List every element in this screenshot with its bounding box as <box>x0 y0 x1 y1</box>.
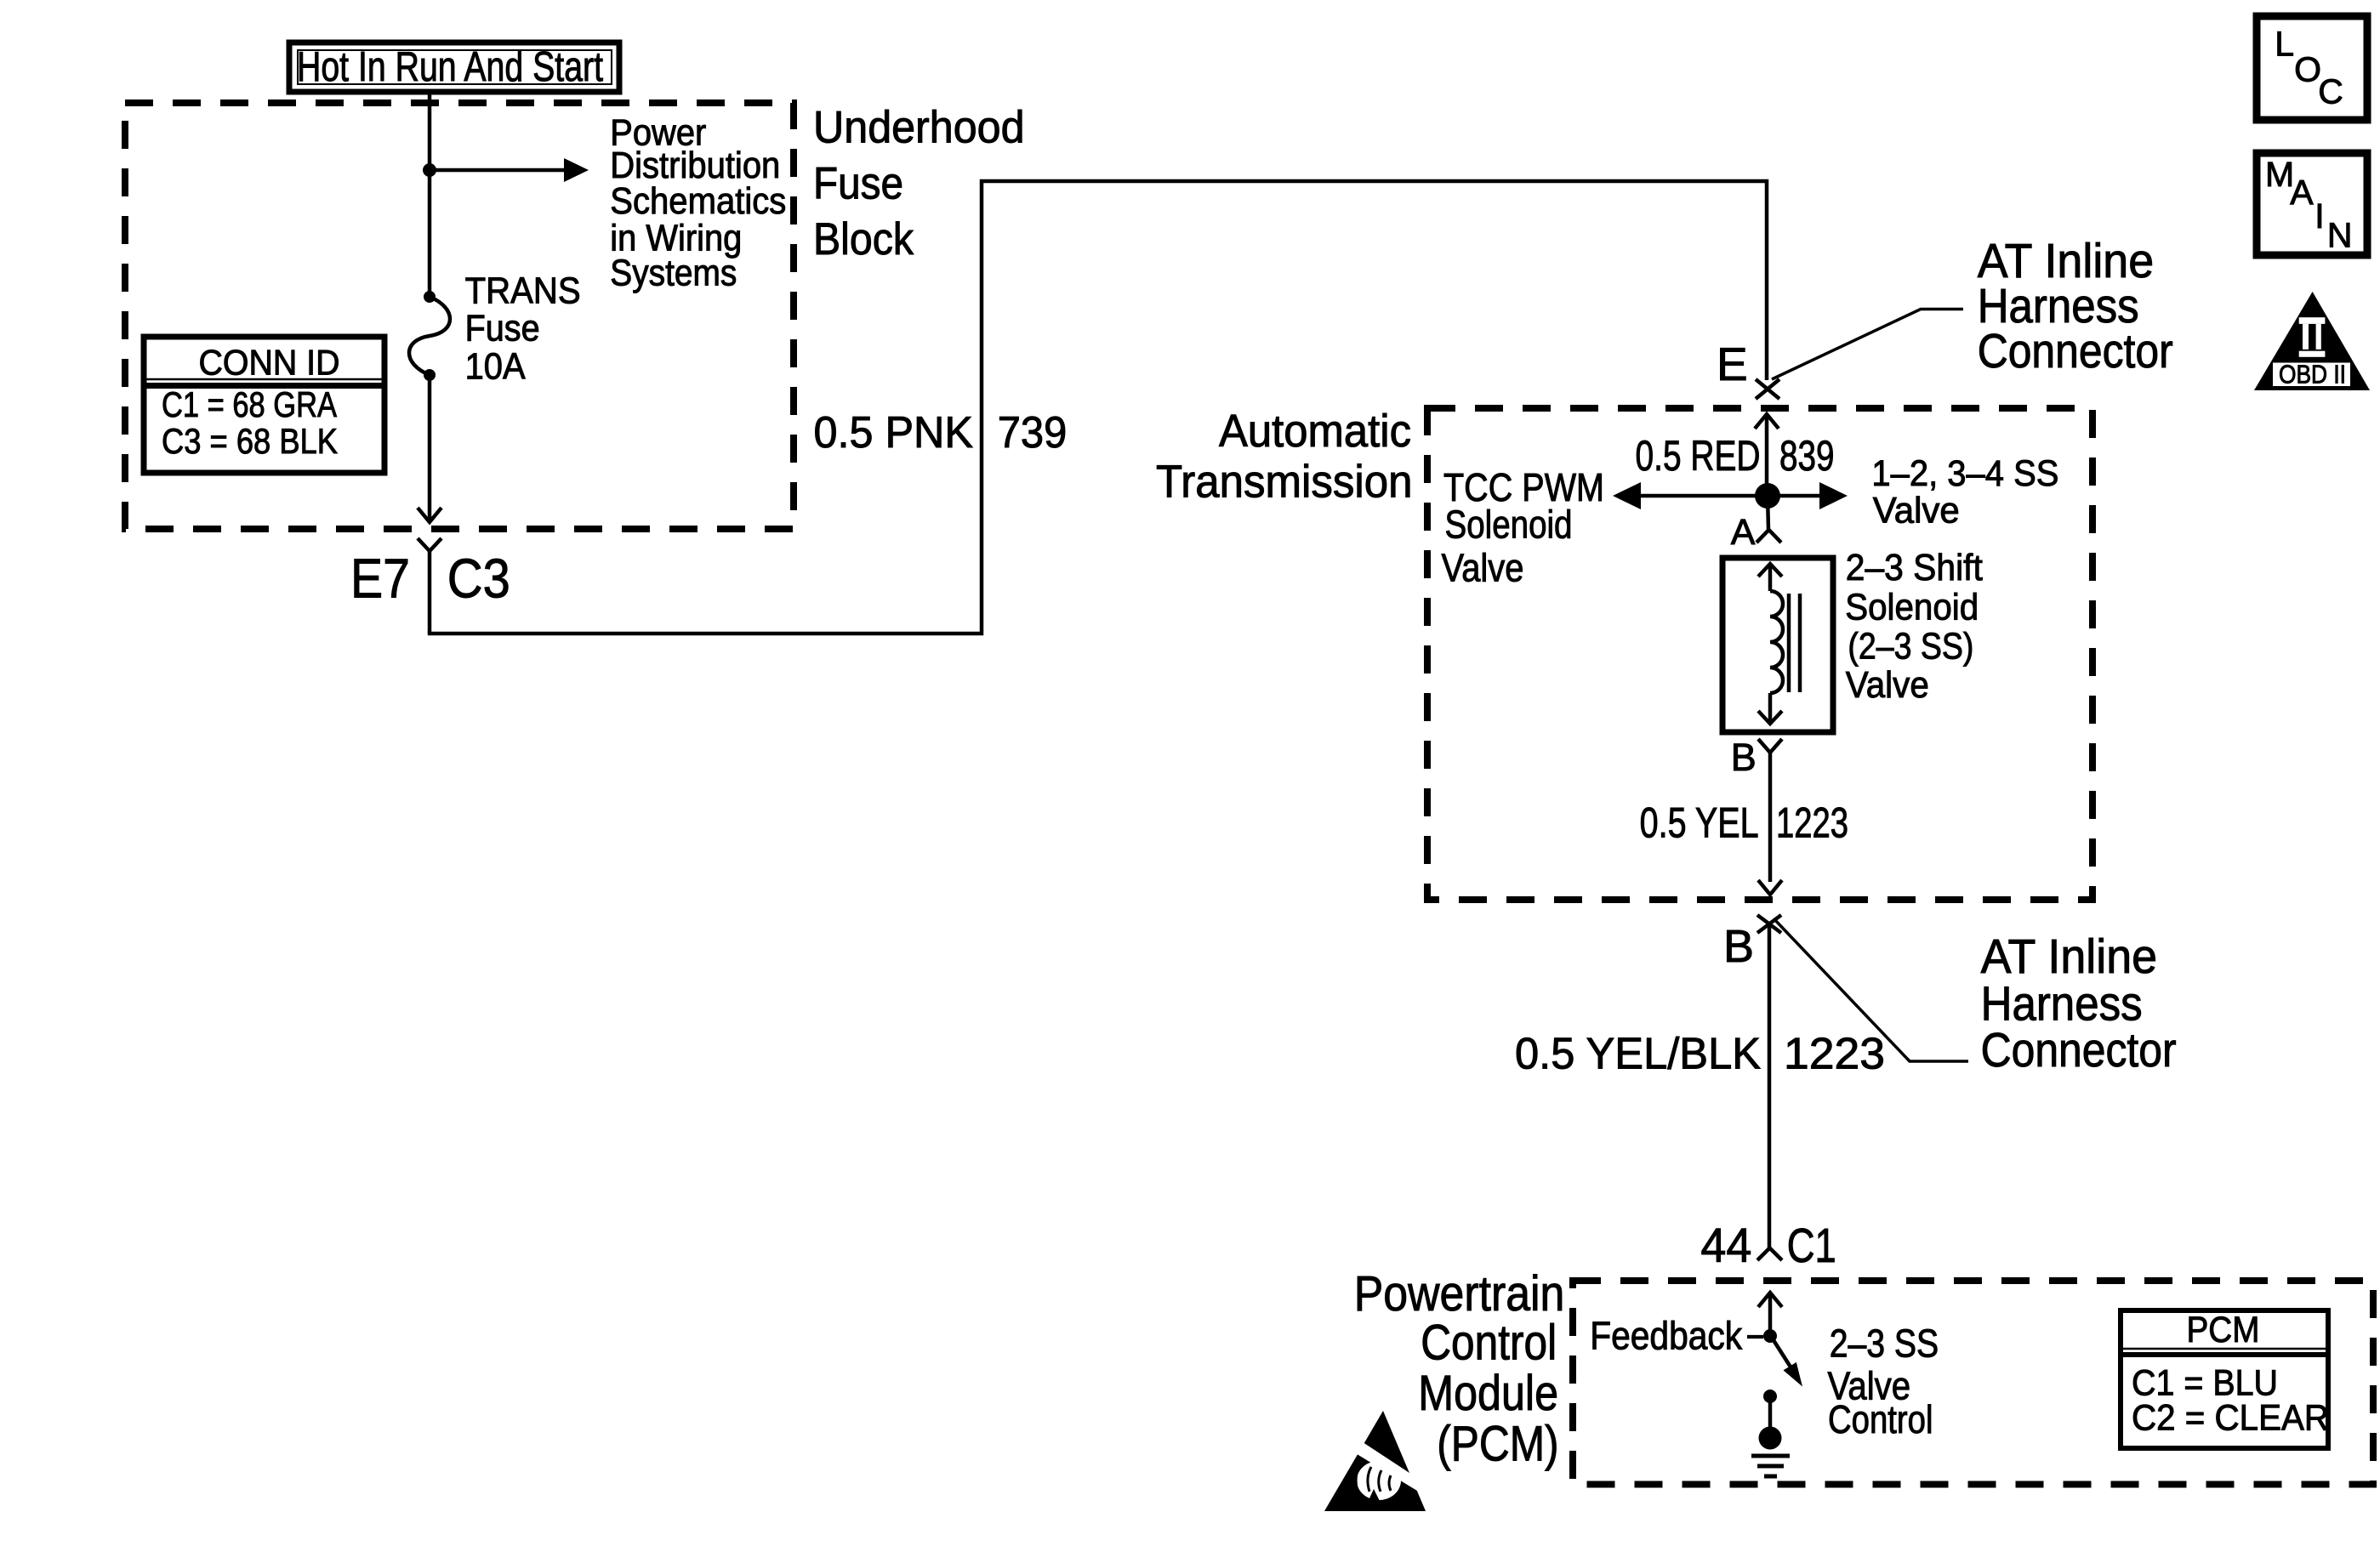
label: 0.5 YEL 1223 <box>1640 799 1848 847</box>
label: TRANS Fuse 10A <box>465 270 581 387</box>
svg-text:C2 = CLEAR: C2 = CLEAR <box>2132 1398 2329 1439</box>
svg-text:10A: 10A <box>465 346 526 387</box>
svg-text:OBD II: OBD II <box>2279 360 2346 389</box>
wire from fuse down with arrow to E7/C3 <box>418 375 441 522</box>
label: AT Inline Harness Connector (bottom) <box>1981 929 2177 1077</box>
svg-text:(2–3 SS): (2–3 SS) <box>1848 626 1973 668</box>
ESD sensitive device symbol <box>1324 1411 1437 1511</box>
arrow to TCC PWM Solenoid Valve <box>1613 482 1768 509</box>
svg-text:C3 = 68 BLK: C3 = 68 BLK <box>162 421 338 461</box>
svg-text:A: A <box>2290 173 2314 212</box>
svg-text:B: B <box>1731 736 1757 779</box>
power label box "Hot In Run And Start" <box>289 43 619 92</box>
wire from splice down to pin A <box>1768 496 1768 530</box>
svg-text:1223: 1223 <box>1784 1029 1885 1078</box>
svg-text:Fuse: Fuse <box>465 308 540 349</box>
label: AT Inline Harness Connector (top) <box>1978 234 2173 378</box>
solenoid 2-3 shift (2-3 SS) valve <box>1722 558 1833 732</box>
label: Feedback with tie line <box>1590 1314 1763 1358</box>
svg-text:Powertrain: Powertrain <box>1354 1266 1565 1321</box>
svg-text:2–3 Shift: 2–3 Shift <box>1846 547 1983 588</box>
connector E (AT inline harness connector) <box>1717 310 1963 400</box>
label: Power Distribution Schematics in Wiring Systems <box>610 111 786 293</box>
svg-text:Feedback: Feedback <box>1590 1314 1743 1358</box>
svg-text:Transmission: Transmission <box>1156 457 1413 508</box>
svg-text:C1: C1 <box>1787 1219 1836 1273</box>
svg-text:C: C <box>2318 71 2343 111</box>
svg-text:L: L <box>2275 24 2294 63</box>
label: 2-3 SS Valve Control <box>1828 1321 1939 1441</box>
arrow to 1-2, 3-4 SS Valve <box>1768 482 1848 509</box>
svg-text:Valve: Valve <box>1873 491 1960 531</box>
svg-text:Automatic: Automatic <box>1219 406 1411 457</box>
wire with up arrow into PCM <box>1758 1293 1782 1336</box>
svg-text:C3: C3 <box>447 548 510 610</box>
label: 0.5 PNK 739 <box>814 408 1068 458</box>
label: TCC PWM Solenoid Valve <box>1442 465 1605 590</box>
ground inside PCM <box>1751 1396 1790 1476</box>
svg-text:Solenoid: Solenoid <box>1845 587 1979 628</box>
svg-text:Control: Control <box>1828 1397 1933 1441</box>
svg-text:Systems: Systems <box>610 253 737 294</box>
svg-text:1–2, 3–4 SS: 1–2, 3–4 SS <box>1871 453 2058 494</box>
svg-text:0.5 PNK: 0.5 PNK <box>814 408 974 458</box>
svg-text:PCM: PCM <box>2187 1310 2260 1350</box>
svg-text:CONN ID: CONN ID <box>199 343 340 383</box>
svg-text:C1 = 68 GRA: C1 = 68 GRA <box>162 384 337 424</box>
arrow to Power Distribution Schematics <box>430 158 589 182</box>
svg-text:E: E <box>1717 338 1748 390</box>
svg-text:I: I <box>2315 196 2324 236</box>
svg-text:44: 44 <box>1700 1219 1751 1273</box>
label: 0.5 RED 839 <box>1636 432 1835 480</box>
label: 1-2, 3-4 SS Valve <box>1871 453 2058 531</box>
wire: 0.5 PNK 739 run to AT inline connector E <box>428 181 1767 634</box>
svg-text:Schematics: Schematics <box>610 180 786 222</box>
junction node on feed wire <box>423 163 436 177</box>
svg-text:Hot In Run And Start: Hot In Run And Start <box>297 44 603 90</box>
label: 0.5 YEL/BLK 1223 <box>1515 1029 1885 1078</box>
svg-text:N: N <box>2327 215 2353 254</box>
connector 44 C1 (PCM) <box>1700 1219 1836 1273</box>
switch: 2-3 SS valve control driver <box>1763 1329 1802 1403</box>
connector pin A of solenoid <box>1731 512 1781 553</box>
svg-text:B: B <box>1723 921 1754 972</box>
wire: 0.5 RED 839 with up arrow into connector E <box>1755 414 1779 496</box>
OBD II symbol <box>2254 292 2370 390</box>
svg-text:Solenoid: Solenoid <box>1445 503 1573 547</box>
svg-text:E7: E7 <box>350 548 410 610</box>
connector B (AT inline harness connector) <box>1723 915 1968 1248</box>
label: Automatic Transmission <box>1156 406 1413 508</box>
PCM dashed box <box>1573 1281 2373 1485</box>
LOC symbol box <box>2257 16 2367 120</box>
svg-text:0.5 RED: 0.5 RED <box>1636 432 1761 480</box>
label: 2-3 Shift Solenoid (2-3 SS) Valve <box>1845 547 1983 706</box>
svg-text:Fuse: Fuse <box>813 158 903 208</box>
svg-text:Valve: Valve <box>1442 546 1524 590</box>
svg-text:Harness: Harness <box>1981 976 2143 1030</box>
svg-text:739: 739 <box>998 408 1068 458</box>
automatic transmission dashed box <box>1427 408 2092 900</box>
svg-text:Connector: Connector <box>1981 1023 2177 1077</box>
CONN ID table <box>144 337 384 473</box>
svg-text:0.5 YEL/BLK: 0.5 YEL/BLK <box>1515 1029 1761 1078</box>
svg-text:Valve: Valve <box>1846 664 1929 706</box>
svg-text:2–3 SS: 2–3 SS <box>1830 1321 1939 1366</box>
wire from Hot In Run And Start down to fuse <box>428 92 432 297</box>
label: Underhood Fuse Block <box>813 103 1025 264</box>
fuse TRANS 10A <box>409 291 450 381</box>
svg-text:TRANS: TRANS <box>465 270 581 311</box>
svg-text:AT Inline: AT Inline <box>1981 929 2158 983</box>
svg-text:Module: Module <box>1418 1366 1558 1421</box>
svg-text:Connector: Connector <box>1978 324 2173 378</box>
svg-text:Underhood: Underhood <box>813 103 1025 153</box>
svg-text:Control: Control <box>1421 1316 1557 1371</box>
connector E7/C3 (fuse block to harness) <box>350 538 510 634</box>
svg-text:0.5 YEL: 0.5 YEL <box>1640 799 1759 847</box>
svg-text:1223: 1223 <box>1776 799 1848 847</box>
connector pin B of solenoid <box>1731 736 1782 895</box>
splice junction dot 839 <box>1755 483 1780 509</box>
PCM connector ID table <box>2121 1310 2329 1448</box>
MAIN symbol box <box>2257 153 2367 255</box>
svg-text:(PCM): (PCM) <box>1437 1417 1558 1472</box>
underhood fuse block dashed box <box>125 103 794 529</box>
svg-text:Block: Block <box>813 214 914 264</box>
svg-text:839: 839 <box>1779 432 1835 480</box>
label: Powertrain Control Module (PCM) <box>1354 1266 1565 1472</box>
svg-text:A: A <box>1731 512 1756 553</box>
